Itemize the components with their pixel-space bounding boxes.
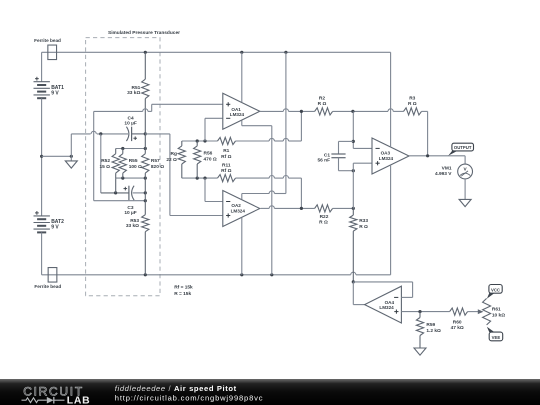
svg-text:R55: R55	[129, 158, 138, 164]
svg-text:33 kΩ: 33 kΩ	[126, 223, 139, 229]
svg-text:10 kΩ: 10 kΩ	[492, 313, 505, 319]
svg-text:100 Ω: 100 Ω	[129, 164, 142, 170]
svg-text:VM1: VM1	[442, 166, 452, 172]
svg-text:15 Ω: 15 Ω	[99, 164, 110, 170]
svg-text:Rf Ω: Rf Ω	[221, 168, 231, 174]
svg-text:R60: R60	[453, 320, 462, 326]
svg-text:R22: R22	[320, 214, 329, 220]
svg-text:LM324: LM324	[379, 156, 394, 161]
svg-text:R53: R53	[130, 218, 139, 224]
svg-text:R = 15k: R = 15k	[174, 291, 191, 297]
svg-text:Simulated Pressure Transducer: Simulated Pressure Transducer	[108, 30, 180, 36]
svg-text:R61: R61	[492, 307, 501, 313]
svg-text:Ferrite bead: Ferrite bead	[34, 284, 61, 289]
svg-text:VEE: VEE	[492, 335, 501, 340]
svg-text:C4: C4	[128, 115, 134, 121]
svg-text:R51: R51	[131, 85, 140, 91]
svg-text:http://circuitlab.com/cngbwj99: http://circuitlab.com/cngbwj998p8vc	[115, 394, 264, 403]
svg-text:R56: R56	[204, 151, 213, 157]
svg-text:Rf Ω: Rf Ω	[221, 154, 231, 160]
svg-text:VCC: VCC	[491, 287, 500, 292]
svg-text:LM324: LM324	[230, 112, 245, 117]
svg-text:fiddledeedee / Air speed Pitot: fiddledeedee / Air speed Pitot	[115, 384, 237, 393]
svg-text:LM324: LM324	[231, 209, 246, 214]
svg-text:Ferrite bead: Ferrite bead	[34, 38, 61, 43]
svg-text:470 Ω: 470 Ω	[204, 157, 217, 163]
svg-text:R59: R59	[426, 322, 435, 328]
svg-text:OA1: OA1	[231, 107, 241, 112]
svg-text:820 Ω: 820 Ω	[151, 164, 164, 170]
svg-text:56 nF: 56 nF	[317, 157, 330, 163]
svg-text:R Ω: R Ω	[408, 101, 417, 107]
svg-text:22 Ω: 22 Ω	[166, 157, 177, 163]
svg-text:R Ω: R Ω	[318, 101, 327, 107]
svg-text:9 V: 9 V	[51, 90, 59, 96]
svg-text:R11: R11	[222, 162, 231, 168]
svg-text:R2: R2	[319, 95, 325, 101]
svg-text:R57: R57	[151, 158, 160, 164]
svg-text:1.2 kΩ: 1.2 kΩ	[426, 328, 441, 334]
svg-text:9 V: 9 V	[51, 225, 59, 231]
svg-text:R52: R52	[101, 158, 110, 164]
svg-text:OA3: OA3	[381, 150, 391, 155]
svg-text:33 kΩ: 33 kΩ	[127, 90, 140, 96]
svg-text:C1: C1	[324, 152, 330, 158]
svg-text:LAB: LAB	[67, 396, 91, 405]
svg-text:Rf = 15k: Rf = 15k	[174, 284, 193, 290]
svg-text:4.993 V: 4.993 V	[435, 171, 452, 177]
svg-text:47 kΩ: 47 kΩ	[451, 325, 464, 331]
svg-text:R3: R3	[409, 96, 415, 102]
svg-text:R1: R1	[223, 148, 229, 154]
svg-text:OUTPUT: OUTPUT	[454, 145, 472, 150]
svg-text:R Ω: R Ω	[319, 220, 328, 226]
svg-text:R Ω: R Ω	[359, 224, 368, 230]
svg-text:LM324: LM324	[379, 305, 394, 310]
svg-text:OA2: OA2	[231, 203, 241, 208]
svg-text:10 µF: 10 µF	[124, 121, 136, 127]
svg-text:10 µF: 10 µF	[124, 210, 136, 216]
svg-text:Rg: Rg	[170, 151, 176, 157]
svg-text:R33: R33	[359, 218, 368, 224]
